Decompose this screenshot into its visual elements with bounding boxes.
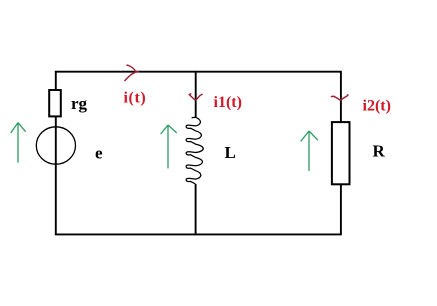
svg-text:R: R xyxy=(373,142,386,161)
svg-text:i2(t): i2(t) xyxy=(363,97,391,114)
svg-text:L: L xyxy=(225,143,236,162)
svg-text:i(t): i(t) xyxy=(124,90,147,107)
svg-text:rg: rg xyxy=(71,94,88,113)
svg-text:i1(t): i1(t) xyxy=(214,94,242,111)
svg-text:e: e xyxy=(95,144,103,163)
